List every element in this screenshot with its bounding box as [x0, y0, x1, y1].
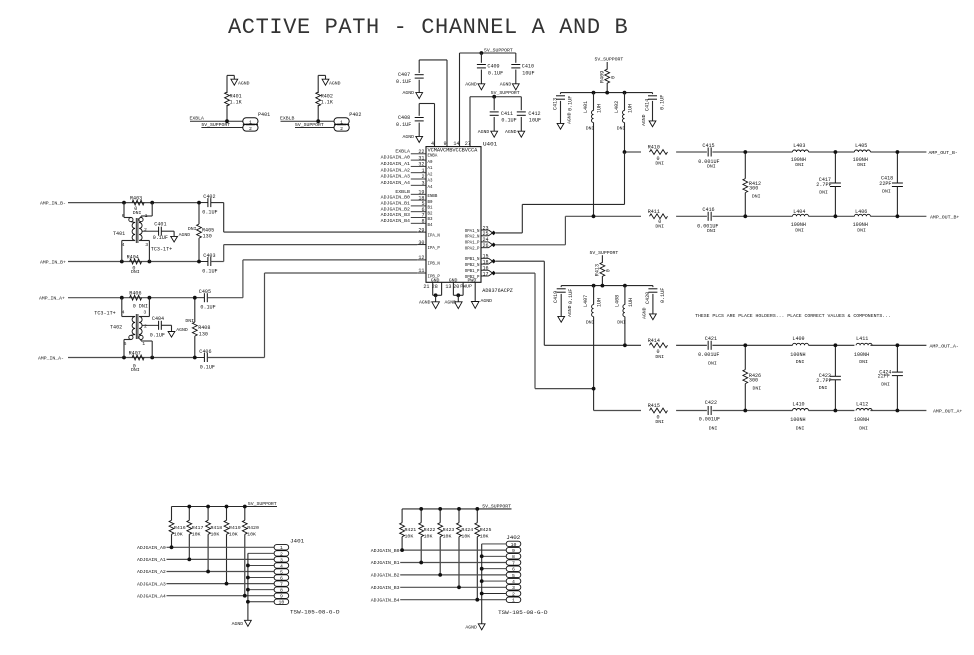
ground AGND below J402 — [465, 624, 485, 631]
svg-text:9: 9 — [443, 141, 446, 147]
svg-text:DNI: DNI — [753, 385, 762, 391]
svg-text:R405: R405 — [202, 228, 214, 234]
node AMP_IN_B+ — [40, 259, 199, 265]
svg-text:DNI: DNI — [707, 164, 716, 170]
svg-text:0.1UF: 0.1UF — [488, 70, 503, 76]
node EXBLA — [190, 116, 243, 122]
junction L408 top — [623, 284, 627, 288]
resistor R423 10K — [438, 509, 455, 575]
resistor R409 0 — [600, 69, 617, 92]
svg-text:9: 9 — [512, 548, 515, 554]
pins 16/17 OPB2 output of U401 — [481, 266, 496, 278]
svg-text:ADJGAIN_A2: ADJGAIN_A2 — [381, 167, 410, 173]
junction T402 bottom left — [122, 356, 126, 360]
inductor L408 1UH DNI — [614, 286, 634, 346]
svg-text:DNI: DNI — [857, 227, 866, 233]
svg-text:10K: 10K — [247, 531, 256, 537]
svg-text:R424: R424 — [461, 527, 473, 533]
svg-text:1UH: 1UH — [628, 298, 634, 307]
svg-text:DNI: DNI — [707, 228, 716, 234]
svg-text:10K: 10K — [480, 534, 489, 540]
svg-text:C421: C421 — [705, 336, 717, 342]
svg-text:0.1UF: 0.1UF — [200, 365, 215, 371]
svg-text:ADJGAIN_B3: ADJGAIN_B3 — [371, 585, 400, 591]
svg-text:A2: A2 — [428, 173, 433, 177]
wire C408 to U401 pin 4 — [419, 104, 434, 147]
svg-text:1: 1 — [142, 341, 145, 347]
pin 29 IPA_N of U401 — [417, 227, 440, 238]
svg-text:OPA1_N: OPA1_N — [465, 230, 480, 234]
ground AGND below C407 — [403, 90, 423, 98]
wire C407 to U401 pin 9 — [419, 60, 447, 147]
pin 8 B4 of U401 / net ADJGAIN_B4 — [381, 218, 433, 228]
svg-text:R422: R422 — [424, 527, 436, 533]
resistor R414 0 DNI — [648, 338, 668, 360]
resistor R402 1.1K — [316, 92, 334, 106]
junction L401 top — [592, 91, 596, 95]
svg-text:6: 6 — [512, 567, 515, 573]
inductor L403 100NH DNI — [791, 143, 809, 168]
svg-text:AGND: AGND — [419, 299, 431, 305]
junction L402 bottom to line B- — [623, 150, 627, 154]
svg-text:R409: R409 — [600, 71, 606, 83]
svg-text:L410: L410 — [792, 401, 804, 407]
connector P402 — [334, 112, 361, 132]
svg-text:0 DNI: 0 DNI — [133, 303, 148, 309]
ground AGND below C410 — [500, 81, 520, 90]
node ADJGAIN_A4 — [137, 593, 274, 599]
node ADJGAIN_B2 — [371, 573, 506, 579]
junction C411 on rail2 — [492, 95, 496, 99]
svg-text:B4: B4 — [428, 224, 433, 228]
svg-text:AMP_OUT_A-: AMP_OUT_A- — [930, 344, 959, 350]
svg-text:R402: R402 — [321, 94, 333, 100]
svg-text:0.1UF: 0.1UF — [568, 289, 574, 304]
junction J402 pin 6 — [480, 567, 484, 571]
capacitor C422 0.001UF DNI — [699, 400, 720, 431]
svg-text:DNI: DNI — [859, 426, 868, 432]
capacitor C411 0.1UF — [490, 97, 517, 132]
svg-text:C408: C408 — [398, 115, 410, 121]
wire OPA2 pins 24/26 to line B+ — [496, 216, 566, 245]
svg-text:130: 130 — [203, 234, 212, 240]
ground AGND below C408 — [403, 134, 423, 142]
svg-text:R425: R425 — [480, 527, 492, 533]
resistor R426 300 DNI — [743, 345, 761, 410]
ground AGND below J401 — [232, 620, 252, 627]
svg-text:ADJGAIN_B1: ADJGAIN_B1 — [381, 201, 410, 207]
svg-text:OPB1_N: OPB1_N — [465, 258, 480, 262]
svg-text:EXBLA: EXBLA — [395, 148, 410, 154]
resistor R412 300 DNI — [743, 152, 761, 216]
svg-text:GND: GND — [431, 278, 440, 284]
svg-text:DNI: DNI — [819, 385, 828, 391]
node EXBLB — [280, 116, 334, 122]
resistor R403 0 DNI — [130, 195, 144, 216]
svg-text:TSW-105-08-G-D: TSW-105-08-G-D — [498, 609, 548, 616]
resistor R411 0 DNI — [648, 209, 668, 229]
svg-text:ADJGAIN_B2: ADJGAIN_B2 — [381, 206, 410, 212]
svg-text:1: 1 — [249, 119, 252, 125]
svg-text:DNI: DNI — [796, 359, 805, 365]
svg-text:U401: U401 — [483, 141, 498, 148]
svg-text:TC3-1T+: TC3-1T+ — [94, 311, 115, 317]
pin 12 IPB_N of U401 — [417, 255, 440, 266]
svg-text:27: 27 — [465, 141, 471, 147]
connector J402 TSW-105-08-G-D — [498, 534, 548, 616]
pin 31 A0 of U401 / net ADJGAIN_A0 — [381, 155, 433, 165]
junction ADJGAIN_A4 pullup — [243, 594, 247, 598]
svg-text:IPA_P: IPA_P — [428, 247, 441, 251]
junction rail R424 — [457, 507, 461, 511]
wire AMP_OUT_B+ line — [565, 214, 959, 220]
svg-text:AMP_OUT_B+: AMP_OUT_B+ — [930, 214, 959, 220]
node AMP_IN_B- — [40, 200, 199, 206]
svg-text:100NH: 100NH — [791, 222, 806, 228]
svg-text:0.1UF: 0.1UF — [150, 332, 165, 338]
svg-text:13: 13 — [445, 284, 451, 290]
junction ADJGAIN_B2 pullup — [438, 573, 442, 577]
junction rail R423 — [438, 507, 442, 511]
resistor R424 10K — [457, 509, 474, 587]
node ADJGAIN_A1 — [137, 557, 274, 563]
svg-text:ADJGAIN_B0: ADJGAIN_B0 — [381, 195, 410, 201]
svg-text:1UH: 1UH — [628, 104, 634, 113]
svg-text:6: 6 — [124, 341, 127, 347]
wire C405 to U401 pin 12 — [207, 260, 417, 298]
svg-text:C403: C403 — [203, 253, 215, 259]
svg-text:DNI: DNI — [795, 227, 804, 233]
svg-text:C406: C406 — [199, 349, 211, 355]
svg-text:ADJGAIN_A2: ADJGAIN_A2 — [137, 569, 166, 575]
svg-text:ADJGAIN_B4: ADJGAIN_B4 — [371, 597, 400, 603]
junction OPB2 wire to L407 line — [592, 387, 596, 391]
capacitor C404 0.1UF on T402 tap — [142, 316, 172, 338]
wire J402 even pins to ground — [482, 544, 507, 624]
svg-text:DNI: DNI — [708, 360, 717, 366]
junction rail R419 — [225, 505, 229, 509]
junction T402 top left — [120, 296, 124, 300]
svg-text:0.1UF: 0.1UF — [153, 235, 168, 241]
transformer T402 TC3-1T+ — [94, 298, 152, 358]
svg-text:18: 18 — [483, 259, 489, 265]
svg-text:10K: 10K — [211, 531, 220, 537]
svg-text:AGND: AGND — [465, 81, 477, 87]
svg-text:R417: R417 — [192, 525, 204, 531]
svg-text:AGND: AGND — [238, 80, 250, 86]
junction T402 top right — [148, 296, 152, 300]
svg-text:2: 2 — [144, 227, 147, 233]
svg-text:4: 4 — [431, 141, 434, 147]
inductor L411 100NH DNI — [854, 336, 872, 365]
svg-text:B0: B0 — [428, 201, 433, 205]
junction C405/R408 — [193, 296, 197, 300]
svg-text:3: 3 — [145, 242, 148, 248]
junction ADJGAIN_B3 pullup — [457, 585, 461, 589]
capacitor C406 0.1UF — [195, 349, 215, 371]
junction T401 bottom left — [120, 260, 124, 264]
svg-text:3: 3 — [421, 181, 424, 187]
junction ADJGAIN_B0 pullup — [400, 548, 404, 552]
junction ADJGAIN_A0 pullup — [170, 545, 174, 549]
svg-text:0.1UF: 0.1UF — [501, 118, 516, 124]
junction J401 pin 10 — [246, 600, 250, 604]
pin 6 B2 of U401 / net ADJGAIN_B2 — [381, 206, 433, 216]
svg-text:TSW-105-08-G-D: TSW-105-08-G-D — [290, 609, 340, 616]
svg-text:4: 4 — [512, 579, 515, 585]
svg-text:10: 10 — [511, 542, 517, 548]
svg-text:AGND: AGND — [505, 129, 517, 135]
resistor R415 0 DNI — [648, 403, 668, 425]
svg-text:100NH: 100NH — [790, 352, 805, 358]
svg-text:10K: 10K — [174, 531, 183, 537]
svg-text:AMP_IN_B-: AMP_IN_B- — [40, 200, 66, 206]
transformer T401 TC3-1T+ — [113, 203, 172, 262]
junction J401 pin 8 — [246, 588, 250, 592]
svg-text:PWUP: PWUP — [460, 284, 472, 290]
resistor R421 10K — [400, 509, 417, 550]
pin 11 IPB_P of U401 — [417, 268, 440, 279]
svg-text:DNI: DNI — [752, 193, 761, 199]
svg-text:C404: C404 — [152, 316, 164, 322]
ground AGND at R402 — [318, 75, 340, 86]
svg-text:DNI: DNI — [586, 319, 595, 325]
svg-text:A1: A1 — [428, 167, 433, 171]
svg-text:2: 2 — [249, 126, 252, 132]
svg-text:AGND: AGND — [481, 298, 493, 304]
svg-text:10K: 10K — [405, 534, 414, 540]
node 5V_SUPPORT channel A filter — [590, 250, 619, 263]
inductor L402 1UH DNI — [614, 93, 634, 152]
svg-text:B1: B1 — [428, 207, 433, 211]
svg-text:2: 2 — [144, 324, 147, 330]
svg-text:ADJGAIN_A4: ADJGAIN_A4 — [381, 180, 410, 186]
svg-text:AGND: AGND — [176, 327, 188, 333]
svg-text:DNI: DNI — [655, 223, 664, 229]
svg-text:100NH: 100NH — [854, 352, 869, 358]
resistor R404 0 DNI — [127, 254, 142, 275]
svg-text:1: 1 — [340, 119, 343, 125]
svg-text:AMP_OUT_B-: AMP_OUT_B- — [929, 150, 958, 156]
pin 1 A2 of U401 / net ADJGAIN_A2 — [381, 167, 433, 177]
wire U401 gnd pins 21/28 — [433, 282, 442, 295]
svg-text:4: 4 — [122, 309, 125, 315]
svg-text:DNI: DNI — [881, 382, 890, 388]
junction rail R418 — [206, 505, 210, 509]
svg-text:OPA1_P: OPA1_P — [465, 242, 480, 246]
junction R402/EXBLB — [316, 119, 320, 123]
svg-text:B2: B2 — [428, 212, 433, 216]
wire rail2 to U401 pin 27 — [469, 97, 471, 147]
wire AMP_OUT_A+ line — [594, 409, 963, 415]
ground AGND at C404 — [168, 327, 188, 337]
junction C402/R405 — [197, 201, 201, 205]
ground AGND below C420 — [650, 314, 657, 320]
svg-text:10UF: 10UF — [522, 70, 534, 76]
svg-text:100NH: 100NH — [854, 417, 869, 423]
svg-text:0.1UF: 0.1UF — [202, 210, 217, 216]
svg-text:DNI: DNI — [796, 426, 805, 432]
svg-text:AGND: AGND — [403, 134, 415, 140]
junction T401 bottom right — [148, 260, 152, 264]
svg-text:2: 2 — [512, 591, 515, 597]
junction rail R422 — [419, 507, 423, 511]
svg-text:OPB1_P: OPB1_P — [465, 270, 480, 274]
junction L407 top — [592, 284, 596, 288]
svg-text:R420: R420 — [247, 525, 259, 531]
ground AGND below C412 — [505, 129, 525, 137]
resistor R407 0 DNI — [129, 350, 145, 373]
svg-text:DNI: DNI — [188, 226, 197, 232]
svg-text:10K: 10K — [424, 534, 433, 540]
junction R401/EXBLA — [225, 119, 229, 123]
resistor R425 10K — [475, 509, 492, 600]
capacitor C402 0.1UF — [199, 194, 218, 216]
svg-text:L408: L408 — [614, 295, 620, 307]
capacitor C401 0.1UF on T401 tap — [142, 221, 174, 241]
svg-text:DNI: DNI — [617, 125, 626, 131]
svg-text:300: 300 — [749, 185, 758, 191]
svg-text:22PF: 22PF — [879, 181, 891, 187]
wire J401 even pins to ground — [248, 553, 274, 620]
capacitor C418 22PF DNI — [879, 152, 903, 216]
svg-text:IPA_N: IPA_N — [428, 235, 441, 239]
svg-text:4: 4 — [122, 242, 125, 248]
svg-text:R403: R403 — [130, 195, 142, 201]
svg-text:C420: C420 — [645, 292, 651, 304]
svg-text:AMP_IN_B+: AMP_IN_B+ — [40, 259, 66, 265]
svg-text:EXBLB: EXBLB — [395, 189, 410, 195]
svg-text:31: 31 — [418, 155, 424, 161]
svg-text:25: 25 — [483, 231, 489, 237]
pin names right inside U401 — [465, 230, 480, 280]
wire AMP_OUT_A- line — [544, 344, 959, 350]
svg-text:3: 3 — [512, 585, 515, 591]
svg-text:6: 6 — [122, 213, 125, 219]
svg-text:DNI: DNI — [131, 269, 140, 275]
wire R401 to ground — [226, 75, 228, 121]
resistor R419 10K — [224, 507, 241, 584]
svg-text:C411: C411 — [501, 111, 513, 117]
wire R402 to ground — [317, 75, 319, 121]
svg-text:B3: B3 — [428, 218, 433, 222]
svg-text:L405: L405 — [855, 143, 867, 149]
svg-text:100NH: 100NH — [853, 222, 868, 228]
pin 18 B0 of U401 / net ADJGAIN_B0 — [381, 195, 433, 205]
svg-text:TC3-1T+: TC3-1T+ — [151, 247, 172, 253]
svg-text:DNI: DNI — [795, 162, 804, 168]
connector P401 — [243, 112, 270, 132]
capacitor C417 2.7PF DNI — [816, 152, 841, 216]
junction J402 pin 8 — [480, 554, 484, 558]
capacitor C405 0.1UF — [195, 289, 216, 311]
svg-text:1.1K: 1.1K — [230, 100, 243, 106]
svg-text:10UF: 10UF — [529, 118, 541, 124]
svg-text:AGND: AGND — [329, 80, 341, 86]
svg-text:10K: 10K — [229, 531, 238, 537]
pin 5 B1 of U401 / net ADJGAIN_B1 — [381, 201, 433, 211]
junction J401 pin 6 — [246, 576, 250, 580]
svg-text:C402: C402 — [203, 194, 215, 200]
svg-text:1UH: 1UH — [597, 298, 603, 307]
svg-text:AGND: AGND — [232, 621, 244, 627]
capacitor C420 0.1UF — [641, 286, 666, 319]
wire 5V rail channel B — [561, 92, 653, 94]
node ADJGAIN_B1 — [371, 560, 506, 566]
svg-text:17: 17 — [483, 271, 489, 277]
svg-text:1.1K: 1.1K — [321, 100, 334, 106]
junction L408 bottom to line A- — [623, 343, 627, 347]
svg-text:10: 10 — [279, 600, 285, 606]
node AMP_IN_A+ — [39, 296, 195, 302]
svg-text:3: 3 — [143, 309, 146, 315]
inductor L410 100NH DNI — [790, 401, 808, 431]
svg-text:C413: C413 — [553, 98, 559, 110]
svg-text:ADJGAIN_B4: ADJGAIN_B4 — [381, 218, 410, 224]
svg-text:R423: R423 — [443, 527, 455, 533]
wire AMP_OUT_B- line — [625, 150, 958, 156]
ground AGND below C414 — [649, 121, 656, 127]
svg-text:C410: C410 — [522, 64, 534, 70]
resistor R420 10K — [242, 507, 259, 596]
node ADJGAIN_A3 — [137, 581, 274, 587]
svg-text:L409: L409 — [792, 336, 804, 342]
node ADJGAIN_B0 — [371, 548, 506, 554]
svg-text:DNI: DNI — [709, 426, 718, 432]
capacitor C407 0.1UF — [396, 60, 424, 93]
connector J401 TSW-105-08-G-D — [274, 538, 340, 616]
capacitor C410 10UF — [511, 53, 534, 84]
svg-text:AGND: AGND — [567, 305, 573, 317]
svg-text:0: 0 — [611, 76, 617, 79]
junction T402 bottom right — [150, 356, 154, 360]
resistor R422 10K — [419, 509, 436, 563]
junction rail R417 — [187, 505, 191, 509]
junction gnd 13/20 — [456, 293, 460, 297]
svg-text:DNI: DNI — [617, 319, 626, 325]
svg-text:DNI: DNI — [819, 190, 828, 196]
svg-text:21: 21 — [423, 284, 429, 290]
node 5V_SUPPORT at J402 — [402, 503, 511, 509]
wire OPB1 pins 15/18 to line A- — [496, 261, 544, 345]
inductor L405 100NH DNI — [853, 143, 871, 168]
svg-text:THESE PLCS ARE PLACE HOLDERS..: THESE PLCS ARE PLACE HOLDERS... PLACE CO… — [695, 313, 891, 319]
capacitor C421 0.001UF DNI — [698, 336, 719, 366]
junction gnd 21/28 — [434, 293, 438, 297]
node AMP_IN_A- — [38, 355, 195, 361]
pins 15/18 OPB1 output of U401 — [481, 254, 496, 266]
svg-text:ENBB: ENBB — [428, 195, 438, 199]
svg-text:20: 20 — [453, 284, 459, 290]
node 5V_SUPPORT rail1 — [460, 48, 516, 54]
svg-text:0.1UF: 0.1UF — [660, 288, 666, 303]
svg-text:C416: C416 — [702, 207, 714, 213]
svg-text:300: 300 — [749, 377, 758, 383]
svg-text:P401: P401 — [258, 112, 270, 118]
svg-text:J402: J402 — [506, 534, 521, 541]
junction J402 pin 4 — [480, 579, 484, 583]
svg-text:ADJGAIN_A3: ADJGAIN_A3 — [137, 581, 166, 587]
svg-text:AGND: AGND — [478, 129, 490, 135]
junction J402 pin 2 — [480, 592, 484, 596]
svg-text:T402: T402 — [110, 324, 122, 330]
svg-text:L411: L411 — [856, 336, 868, 342]
svg-text:A3: A3 — [428, 180, 433, 184]
inductor L404 100NH DNI — [791, 209, 809, 233]
svg-text:L407: L407 — [583, 295, 589, 307]
svg-text:C405: C405 — [199, 289, 211, 295]
capacitor C409 0.1UF — [477, 53, 503, 84]
